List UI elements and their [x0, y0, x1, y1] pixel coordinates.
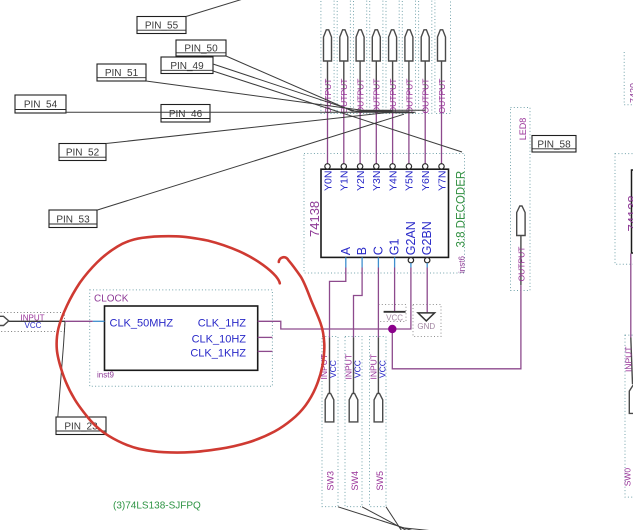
OUTPUT label 8	[437, 79, 447, 114]
inversion bubble Y2N	[357, 164, 362, 169]
pin label Y5N	[404, 171, 416, 191]
pin label box PIN_46	[161, 105, 210, 123]
pin label Y0N	[322, 171, 334, 191]
svg-text:C: C	[371, 246, 385, 255]
svg-text:Y5N: Y5N	[404, 171, 416, 191]
flyline PIN_51	[146, 81, 425, 110]
pin label Y4N	[387, 171, 399, 191]
svg-text:G2AN: G2AN	[404, 221, 418, 255]
flyline PIN_53	[97, 114, 404, 210]
svg-text:OUTPUT: OUTPUT	[356, 79, 366, 114]
OUTPUT label 3	[356, 79, 366, 114]
pin label CLK_10HZ	[192, 334, 247, 346]
output pad symbol 1	[324, 30, 332, 61]
pin label box PIN_50	[176, 40, 226, 56]
svg-text:SW5: SW5	[375, 471, 385, 491]
inversion bubble Y0N	[325, 164, 330, 169]
pin label G2BN	[420, 221, 434, 255]
INPUT label SW5	[369, 354, 379, 380]
pin stub B (blue)	[361, 257, 363, 267]
OUTPUT label 1	[323, 79, 333, 114]
pin label G1	[388, 238, 402, 255]
GND power symbol	[417, 313, 435, 331]
wire CLOCK input net	[65, 320, 93, 322]
LED8 group box (dotted)	[511, 108, 531, 291]
wire B to SW4	[354, 268, 363, 338]
wire SW5 stem (gray)	[377, 338, 379, 394]
INPUT label SW3	[319, 354, 329, 380]
wire CLK_1HZ net to node and LED8	[258, 285, 521, 369]
output pad symbol 4	[372, 30, 380, 61]
pin label Y1N	[339, 171, 351, 191]
OUTPUT label 7	[421, 79, 431, 114]
VCC label SW4	[353, 360, 363, 378]
svg-text:PIN_58: PIN_58	[537, 139, 571, 150]
pin output symbol stem 5	[392, 62, 394, 91]
flyline SW3	[338, 507, 412, 530]
OUTPUT label 6	[404, 79, 414, 114]
inversion bubble Y3N	[374, 164, 379, 169]
svg-text:(3)74LS138-SJFPQ: (3)74LS138-SJFPQ	[113, 501, 201, 512]
inversion bubble Y6N	[423, 164, 428, 169]
wire Y5N output	[408, 90, 410, 164]
flyline PIN_49 b	[213, 71, 462, 152]
svg-text:Y3N: Y3N	[371, 171, 383, 191]
SW0 name label	[623, 468, 633, 487]
svg-text:OUTPUT: OUTPUT	[421, 79, 431, 114]
pin label box PIN_58	[532, 136, 576, 153]
wire Y1N output	[343, 90, 345, 164]
pin PIN_55 output symbol stem 1	[327, 62, 329, 91]
title note (3)74LS138-SJFPQ	[113, 501, 201, 512]
decoder U1 74138 chip body	[321, 169, 449, 257]
pin label Y6N	[420, 171, 432, 191]
inversion bubble Y1N	[341, 164, 346, 169]
svg-text:SW4: SW4	[350, 471, 360, 491]
LED8 output pad symbol	[517, 206, 525, 236]
wire U2 pin to SW0	[630, 254, 632, 338]
pin label Y3N	[371, 171, 383, 191]
svg-text:Y4N: Y4N	[387, 171, 399, 191]
pin label box PIN_49	[161, 57, 213, 74]
SW4 name label	[350, 471, 360, 491]
OUTPUT label 4	[372, 79, 382, 114]
pin output symbol stem 6	[408, 62, 410, 91]
wire SW3 stem (gray)	[329, 338, 331, 394]
pin label Y2N	[355, 171, 367, 191]
svg-text:PIN_50: PIN_50	[184, 44, 218, 55]
svg-text:CLK_10HZ: CLK_10HZ	[192, 334, 247, 346]
wire Y2N output	[359, 90, 361, 164]
chip label 3:8 DECODER	[455, 171, 467, 248]
svg-text:A: A	[339, 246, 353, 255]
INPUT label SW4	[344, 354, 354, 380]
svg-text:G1: G1	[388, 238, 402, 255]
wire Y0N output	[327, 90, 329, 164]
instance label inst9	[97, 371, 114, 380]
svg-text:Y0N: Y0N	[322, 171, 334, 191]
decoder U2 group box (dotted, clipped right)	[615, 154, 633, 265]
output pad symbol 5	[389, 30, 397, 61]
pin label box PIN_55	[137, 17, 186, 34]
chip label 7420 fragment top right	[629, 83, 633, 103]
pin output symbol stem 2	[343, 62, 345, 91]
svg-text:SW0: SW0	[623, 468, 633, 487]
svg-text:3:8 DECODER: 3:8 DECODER	[455, 171, 467, 248]
svg-text:PIN_55: PIN_55	[145, 21, 179, 32]
VCC label (left input)	[25, 321, 42, 330]
SW5 input pin symbol	[374, 393, 383, 422]
pin label CLK_1KHZ	[190, 348, 246, 360]
flyline SW5	[386, 507, 402, 530]
flyline SW4	[362, 507, 407, 530]
output pad symbol 3	[356, 30, 364, 61]
SW0 input pin symbol (clipped)	[629, 384, 633, 413]
pin output symbol stem 4	[375, 62, 377, 91]
wire Y7N output	[441, 90, 443, 164]
VCC label SW3	[328, 360, 338, 378]
wire CLK_1KHZ stub	[258, 350, 273, 352]
pin label C	[371, 246, 385, 255]
svg-text:SW3: SW3	[326, 471, 336, 491]
flyline PIN_52	[106, 113, 414, 144]
wire input pin stem (black)	[9, 320, 65, 322]
svg-text:Y6N: Y6N	[420, 171, 432, 191]
pin label box PIN_23	[56, 417, 106, 435]
pin output symbol stem 8	[441, 62, 443, 91]
output pad symbol 2	[340, 30, 348, 61]
svg-text:PIN_52: PIN_52	[66, 148, 100, 159]
CLOCK label	[94, 294, 129, 305]
wire C to SW5	[377, 268, 379, 338]
svg-text:INPUT: INPUT	[623, 347, 633, 373]
svg-text:CLK_1HZ: CLK_1HZ	[198, 318, 247, 330]
svg-text:PIN_53: PIN_53	[56, 215, 90, 226]
svg-text:OUTPUT: OUTPUT	[388, 79, 398, 114]
input VCC group box (dotted)	[0, 313, 65, 332]
svg-text:GND: GND	[417, 322, 435, 331]
wire A to SW3	[330, 268, 346, 338]
SW3 name label	[326, 471, 336, 491]
flyline PIN_49 a	[213, 64, 409, 112]
INPUT label SW0	[623, 347, 633, 373]
VCC power symbol	[384, 312, 406, 323]
output pin group boxes (dotted) SW outputs of 74138	[321, 0, 451, 114]
LED8 name label	[518, 118, 528, 141]
wire CLOCK input stub (blue)	[93, 320, 105, 322]
svg-text:PIN_46: PIN_46	[169, 109, 203, 120]
SW4 input pin symbol	[349, 393, 358, 422]
wire Y4N output	[392, 90, 394, 164]
inversion bubble G2BN	[425, 258, 430, 263]
pin output symbol stem 7	[424, 62, 426, 91]
svg-text:7420: 7420	[629, 83, 633, 103]
pin label Y7N	[436, 171, 448, 191]
svg-text:LED8: LED8	[518, 118, 528, 141]
wire CLK_10HZ stub	[258, 336, 273, 338]
pin stub G2BN (blue)	[426, 263, 428, 268]
pin label CLK_1HZ	[198, 318, 247, 330]
svg-text:OUTPUT: OUTPUT	[516, 247, 526, 282]
wire G1 to VCC	[394, 268, 396, 312]
INPUT label (left)	[21, 313, 45, 322]
flyline PIN_55	[186, 0, 243, 17]
decoder U1 group box (dotted)	[304, 154, 465, 274]
input VCC pin symbol	[0, 316, 9, 325]
OUTPUT label LED8	[516, 247, 526, 282]
pin stub G1 (blue)	[394, 257, 396, 267]
flyline PIN_50	[226, 56, 393, 111]
instance label inst6	[458, 256, 467, 273]
wire Y6N output	[424, 90, 426, 164]
pin label B	[355, 247, 369, 255]
pin label box PIN_54	[15, 95, 66, 113]
svg-text:G2BN: G2BN	[420, 221, 434, 255]
wire SW0 stem (gray)	[631, 338, 633, 385]
svg-text:PIN_51: PIN_51	[105, 68, 139, 79]
pin stub G2AN (blue)	[410, 263, 412, 268]
svg-text:CLOCK: CLOCK	[94, 294, 129, 305]
flyline PIN_23	[58, 322, 65, 417]
svg-text:VCC: VCC	[353, 360, 363, 378]
svg-text:OUTPUT: OUTPUT	[437, 79, 447, 114]
output pad symbol 6	[405, 30, 413, 61]
svg-text:OUTPUT: OUTPUT	[372, 79, 382, 114]
pin output symbol stem 3	[359, 62, 361, 91]
SW5 name label	[375, 471, 385, 491]
pin label box PIN_53	[49, 210, 97, 228]
SW3 group box (dotted)	[322, 337, 338, 507]
pin label box PIN_52	[59, 144, 106, 161]
pin label A	[339, 246, 353, 255]
wire G2AN to node	[392, 268, 411, 330]
svg-text:Y7N: Y7N	[436, 171, 448, 191]
svg-text:74138: 74138	[307, 201, 322, 237]
SW4 group box (dotted)	[345, 337, 362, 507]
svg-text:VCC: VCC	[25, 321, 42, 330]
svg-text:Y1N: Y1N	[339, 171, 351, 191]
output pad symbol 7	[421, 30, 429, 61]
flyline tail bottom	[400, 528, 434, 530]
svg-text:B: B	[355, 247, 369, 255]
svg-text:VCC: VCC	[328, 360, 338, 378]
inversion bubble Y7N	[439, 164, 444, 169]
svg-text:CLK_50MHZ: CLK_50MHZ	[110, 318, 174, 330]
svg-text:CLK_1KHZ: CLK_1KHZ	[190, 348, 246, 360]
inversion bubble Y4N	[390, 164, 395, 169]
top right block group box fragment (dotted)	[624, 52, 633, 105]
SW5 group box (dotted)	[370, 337, 387, 507]
svg-text:74138: 74138	[625, 195, 633, 231]
svg-text:inst9: inst9	[97, 371, 114, 380]
CLOCK inst9 chip body	[105, 306, 258, 370]
svg-text:OUTPUT: OUTPUT	[404, 79, 414, 114]
SW0 group box (dotted, clipped right)	[625, 335, 633, 497]
OUTPUT label 5	[388, 79, 398, 114]
VCC power group box (dotted)	[379, 305, 407, 322]
annotation red circle around CLOCK	[57, 236, 325, 452]
chip label 74138 U2	[625, 195, 633, 231]
pin label G2AN	[404, 221, 418, 255]
pin stub C (blue)	[377, 257, 379, 267]
pin label CLK_50MHZ	[110, 318, 174, 330]
SW3 input pin symbol	[325, 393, 334, 422]
svg-text:PIN_49: PIN_49	[170, 61, 204, 72]
output pad symbol 8	[438, 30, 446, 61]
wire SW4 stem (gray)	[353, 338, 355, 394]
wire G2BN to GND	[426, 268, 428, 313]
svg-text:VCC: VCC	[377, 360, 387, 378]
OUTPUT label 2	[339, 79, 349, 114]
svg-text:PIN_54: PIN_54	[24, 100, 58, 111]
pin label box PIN_51	[97, 64, 146, 81]
LED8 output pin stem (gray)	[520, 236, 522, 286]
svg-text:VCC: VCC	[386, 314, 403, 323]
inversion bubble G2AN	[408, 258, 413, 263]
flyline PIN_54 / PIN_46	[66, 111, 416, 113]
decoder U2 74138 chip body (clipped right)	[632, 170, 633, 253]
CLOCK group box (dotted)	[90, 290, 273, 386]
wire Y3N output	[375, 90, 377, 164]
chip label 74138 U1	[307, 201, 322, 237]
GND power group box (dotted)	[413, 305, 441, 337]
svg-text:Y2N: Y2N	[355, 171, 367, 191]
node junction dot	[388, 325, 396, 333]
inversion bubble Y5N	[406, 164, 411, 169]
pin stub A (blue)	[345, 257, 347, 267]
VCC label SW5	[377, 360, 387, 378]
svg-text:inst6: inst6	[458, 256, 467, 273]
